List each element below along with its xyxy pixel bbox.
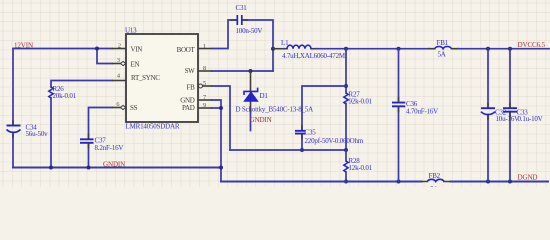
wire C33 top lead xyxy=(509,49,511,108)
svg-text:GND: GND xyxy=(180,96,195,104)
capacitor C36 xyxy=(392,97,438,116)
pin 6 SS stub xyxy=(112,107,126,109)
capacitor C32 (polarized) xyxy=(481,103,519,123)
wire GNDIN rail xyxy=(13,167,221,169)
wire SW to vertical xyxy=(212,70,273,72)
node junction C35/FB line xyxy=(300,148,304,152)
pin 9 PAD stub xyxy=(198,107,212,109)
pin 3 EN stub xyxy=(112,63,126,65)
svg-text:VIN: VIN xyxy=(131,46,143,54)
svg-text:LMR14050SDDAR: LMR14050SDDAR xyxy=(126,123,180,131)
wire FB pin to vertical xyxy=(212,86,230,150)
inductor L1 xyxy=(281,39,348,60)
node junction rail/C32 xyxy=(486,47,490,51)
svg-text:12VIN: 12VIN xyxy=(14,42,33,50)
svg-text:SW: SW xyxy=(185,67,196,75)
wire R28 bottom to bottom rail xyxy=(345,172,347,182)
svg-text:DGND: DGND xyxy=(518,174,538,182)
wire C36 bottom lead xyxy=(398,107,400,182)
node junction rail/C36 xyxy=(397,47,401,51)
svg-text:5: 5 xyxy=(203,80,206,87)
wire C33 bottom lead xyxy=(509,112,511,182)
node junction SW/D1 xyxy=(249,69,253,73)
wire FB1 leads xyxy=(429,48,458,50)
wire D1 anode to GNDIN stub xyxy=(250,101,252,112)
pin 3 EN input diamond xyxy=(121,61,126,65)
svg-text:5A: 5A xyxy=(438,50,446,58)
svg-text:4.7uH,XAL6060-472MI: 4.7uH,XAL6060-472MI xyxy=(282,52,348,60)
pin 6 SS input diamond xyxy=(121,105,126,109)
svg-text:D1: D1 xyxy=(260,92,269,100)
svg-text:U13: U13 xyxy=(125,27,137,35)
capacitor C34 (polarized) xyxy=(7,121,49,139)
svg-text:EN: EN xyxy=(131,60,140,68)
wire D1 cathode stub xyxy=(250,71,252,91)
svg-text:GNDIN: GNDIN xyxy=(250,116,272,124)
capacitor C33 xyxy=(503,103,543,123)
svg-text:PAD: PAD xyxy=(182,104,195,112)
wire output rail FB1 to DVCC6.5 xyxy=(458,48,549,50)
capacitor C37 xyxy=(80,134,123,153)
wire FB2 leads xyxy=(422,181,451,183)
wire BOOT up to C31 left xyxy=(212,20,236,49)
svg-text:4: 4 xyxy=(117,72,121,79)
pin 1 BOOT stub xyxy=(198,48,212,50)
wire C37 bottom to GNDIN rail xyxy=(88,143,90,168)
wire PAD pin to vertical xyxy=(212,107,221,109)
resistor R27 xyxy=(344,91,373,106)
ferrite bead FB1 xyxy=(435,39,452,59)
svg-text:DVCC6.5: DVCC6.5 xyxy=(518,41,546,49)
wire C32 bottom lead xyxy=(487,115,489,182)
node junction R26/GNDIN xyxy=(49,166,53,170)
node junction C33/bottom rail xyxy=(508,180,512,184)
node junction GNDIN rail end xyxy=(219,166,223,170)
node junction SW/L1 xyxy=(271,47,275,51)
svg-text:100n-50V: 100n-50V xyxy=(236,27,263,35)
capacitor C31 xyxy=(231,4,263,35)
svg-text:C35: C35 xyxy=(305,129,317,137)
wire SS to C37 top xyxy=(89,108,113,140)
wire 12VIN horizontal to VIN pin xyxy=(13,48,112,50)
wire EN jog from 12VIN xyxy=(97,49,112,64)
diode D1 (schottky) xyxy=(236,88,314,114)
pin 5 FB stub xyxy=(198,85,212,87)
wire RT_SYNC to R26 top xyxy=(51,81,112,88)
svg-text:BOOT: BOOT xyxy=(177,46,196,54)
svg-text:220pf-50V-0.060Ohm: 220pf-50V-0.060Ohm xyxy=(305,137,364,145)
svg-text:3: 3 xyxy=(117,57,120,64)
node junction C36/bottom rail xyxy=(397,180,401,184)
svg-text:FB2: FB2 xyxy=(429,172,441,180)
svg-text:SS: SS xyxy=(130,104,138,112)
IC U13 body xyxy=(126,34,198,122)
wire L1 right lead xyxy=(311,48,317,50)
svg-text:8.2nF-16V: 8.2nF-16V xyxy=(95,144,124,152)
wire R27 bottom to FB node xyxy=(345,104,347,151)
wire C34 bottom to GNDIN rail xyxy=(12,134,14,168)
wire R27 top lead xyxy=(345,49,347,93)
node junction rail/R27 xyxy=(344,47,348,51)
svg-text:D Schottky_B540C-13-8_5A: D Schottky_B540C-13-8_5A xyxy=(236,106,314,114)
pin 5 FB circle xyxy=(199,84,203,88)
node junction C35/R27 top xyxy=(344,84,348,88)
svg-text:12k-0.01: 12k-0.01 xyxy=(349,164,373,172)
svg-text:0.1u-10V: 0.1u-10V xyxy=(518,115,543,123)
svg-text:9: 9 xyxy=(203,102,206,109)
pin 7 GND stub xyxy=(198,99,212,101)
svg-text:RT_SYNC: RT_SYNC xyxy=(131,74,160,82)
svg-text:2: 2 xyxy=(118,42,121,49)
node junction R28/bottom rail xyxy=(344,180,348,184)
pin 4 RT_SYNC stub xyxy=(112,80,126,82)
svg-text:56u-50v: 56u-50v xyxy=(26,130,49,138)
svg-text:1: 1 xyxy=(203,43,206,50)
node junction 12VIN/EN xyxy=(95,47,99,51)
resistor R28 xyxy=(344,157,373,172)
svg-text:C31: C31 xyxy=(236,4,248,12)
svg-text:6: 6 xyxy=(116,101,119,108)
svg-text:7: 7 xyxy=(203,94,206,101)
resistor R26 xyxy=(49,85,77,100)
wire output rail L1 to FB1 xyxy=(317,48,430,50)
wire R28 top lead xyxy=(345,150,347,161)
node junction R27/R28/FB xyxy=(344,148,348,152)
wire C35 bottom to FB line xyxy=(301,134,303,150)
svg-text:FB1: FB1 xyxy=(437,39,449,47)
wire 12VIN down to C34 xyxy=(12,49,14,126)
svg-text:4.70uF-16V: 4.70uF-16V xyxy=(406,107,438,115)
wire L1 left lead xyxy=(273,48,287,50)
wire FB horizontal line xyxy=(230,149,346,151)
wire C36 top lead xyxy=(398,49,400,102)
wire R26 bottom to GNDIN rail xyxy=(50,98,52,168)
node junction C32/bottom rail xyxy=(486,180,490,184)
svg-text:8: 8 xyxy=(203,65,206,72)
node junction PAD/GND xyxy=(219,106,223,110)
wire C32 top lead xyxy=(487,49,489,108)
wire bottom rail right of FB2 (DGND) xyxy=(451,181,549,183)
wire bottom rail left of FB2 xyxy=(221,181,422,183)
node junction C37/GNDIN xyxy=(87,166,91,170)
IC U13 LMR14050SDDAR xyxy=(112,27,212,131)
pin 8 SW stub xyxy=(198,70,212,72)
svg-text:GNDIN: GNDIN xyxy=(103,160,125,168)
ferrite bead FB2 xyxy=(427,172,444,194)
svg-text:92k-0.01: 92k-0.01 xyxy=(349,98,373,106)
node junction rail/C33 xyxy=(508,47,512,51)
wire C31 right down to SW node xyxy=(243,20,274,71)
svg-text:FB: FB xyxy=(187,84,196,92)
wire GND pin to vertical xyxy=(212,100,221,182)
pin 2 VIN stub xyxy=(112,48,126,50)
svg-text:20k-0.01: 20k-0.01 xyxy=(53,92,77,100)
svg-text:L1: L1 xyxy=(281,39,289,47)
svg-text:5A: 5A xyxy=(430,186,438,188)
capacitor C35 xyxy=(295,125,364,145)
wire C35 top to R27 column xyxy=(302,86,346,130)
